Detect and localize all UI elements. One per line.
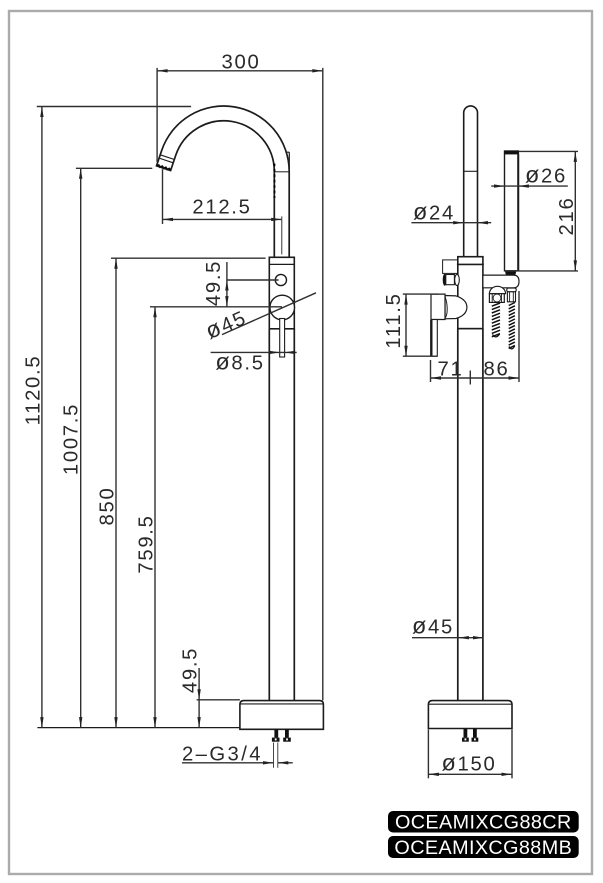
svg-text:ø8.5: ø8.5 [215,349,264,375]
side view: floor base ø150 [428,701,512,729]
dimension 111.5 [383,292,439,356]
svg-text:71: 71 [438,359,464,381]
side view: shower hose to wand (coiled) [489,286,505,337]
dimension ø24 [411,198,491,224]
svg-text:OCEAMIXCG88CR: OCEAMIXCG88CR [395,812,572,834]
front view: gooseneck spout [157,106,290,257]
dimension 49.5 base height [180,647,240,728]
dimension ø45 (side) [412,613,484,640]
side view: spout tube [464,106,478,257]
dimension 850 [97,258,266,727]
side view: hand shower wand ø26 [505,151,519,276]
front view: standpipe column [269,329,294,701]
floor line [37,727,240,729]
svg-text:ø24: ø24 [413,198,455,224]
label OCEAMIXCG88MB [388,836,579,859]
svg-text:850: 850 [97,487,119,526]
dimension ø8.5 [211,349,297,375]
dimension 49.5 knob-to-hub [203,260,279,307]
dimension 1007.5 [61,168,153,727]
dimension ø150 [428,730,512,779]
svg-text:ø26: ø26 [525,162,567,188]
svg-text:111.5: 111.5 [383,292,405,348]
side view: mixer body [457,257,484,329]
side view: G3/4 inlet fittings [462,729,478,742]
label OCEAMIXCG88CR [388,811,579,834]
svg-text:ø45: ø45 [412,613,454,639]
svg-text:ø150: ø150 [441,749,496,775]
dimension ø45 leader (front) [201,293,316,344]
front view: lever rod ø8.5 [280,319,285,358]
svg-text:300: 300 [222,52,261,74]
dimensions 71 and 86 [431,291,520,385]
dimension 300 [157,52,323,701]
side view: supply hose (coiled) [507,288,516,349]
svg-text:ø45: ø45 [201,303,250,344]
dimension ø26 [491,162,568,188]
front view: diverter knob (small circle) [275,274,286,285]
svg-text:86: 86 [484,359,510,381]
front view: floor base [240,701,324,730]
svg-text:216: 216 [556,197,578,236]
svg-text:1007.5: 1007.5 [61,403,83,475]
side view: diverter knob [443,260,460,286]
svg-text:1120.5: 1120.5 [23,355,45,426]
side view: shower holder arm [483,275,519,288]
front view: G3/4 inlet fittings [272,729,291,741]
svg-text:49.5: 49.5 [203,260,225,306]
dimension 2-G3/4 [182,743,293,768]
dimension 1120.5 [23,107,192,728]
svg-text:49.5: 49.5 [180,647,202,693]
svg-text:212.5: 212.5 [192,197,251,219]
svg-text:OCEAMIXCG88MB: OCEAMIXCG88MB [394,837,572,859]
svg-text:759.5: 759.5 [136,514,158,573]
front view: hand shower hidden behind spout [274,152,289,198]
dimension 212.5 [163,169,282,254]
front view: handle hub circle ø45 [270,295,295,320]
side view: handle lever [431,294,467,356]
dimension 759.5 [136,307,283,728]
side view: standpipe column [458,329,483,701]
svg-text:2–G3/4: 2–G3/4 [182,744,263,766]
dimension 216 [505,151,578,271]
front view: mixer body column [269,257,294,329]
